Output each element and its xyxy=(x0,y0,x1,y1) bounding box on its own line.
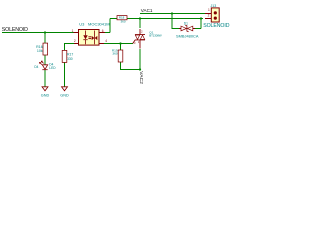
svg-text:D1: D1 xyxy=(184,21,188,25)
svg-text:360: 360 xyxy=(112,52,117,56)
svg-text:MOC3041M: MOC3041M xyxy=(88,21,110,26)
svg-text:2: 2 xyxy=(208,14,210,18)
svg-text:GND: GND xyxy=(41,93,50,97)
svg-text:6: 6 xyxy=(102,29,104,33)
svg-text:2: 2 xyxy=(141,30,143,34)
svg-text:330: 330 xyxy=(67,57,73,61)
svg-text:4: 4 xyxy=(105,39,107,43)
svg-text:SMBJ480CA: SMBJ480CA xyxy=(176,34,199,39)
svg-text:10k: 10k xyxy=(37,49,43,53)
svg-text:VAC2: VAC2 xyxy=(138,71,144,84)
svg-text:3: 3 xyxy=(134,41,136,45)
svg-text:LED: LED xyxy=(49,66,56,70)
svg-text:U3: U3 xyxy=(79,21,85,26)
svg-text:J13: J13 xyxy=(211,4,217,8)
svg-text:BT1308W: BT1308W xyxy=(149,34,162,38)
svg-text:SOLENOID: SOLENOID xyxy=(203,23,230,29)
svg-text:GND: GND xyxy=(60,93,69,97)
svg-text:SOLENOID: SOLENOID xyxy=(2,27,28,33)
svg-text:VAC1: VAC1 xyxy=(141,8,153,13)
svg-text:360: 360 xyxy=(121,19,126,23)
svg-text:1: 1 xyxy=(72,29,74,33)
svg-text:D4: D4 xyxy=(34,65,38,69)
svg-text:1: 1 xyxy=(138,40,140,44)
svg-text:1: 1 xyxy=(208,8,210,12)
svg-text:2: 2 xyxy=(74,39,76,43)
